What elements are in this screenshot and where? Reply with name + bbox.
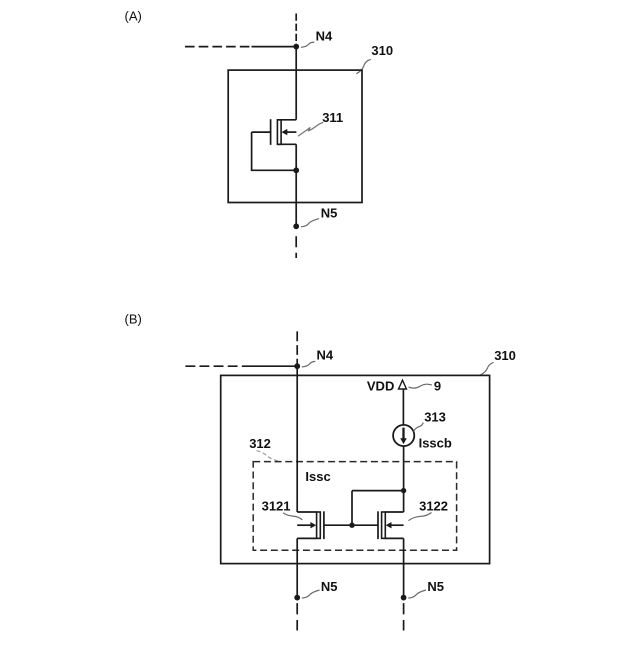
wire: solid horizontal into node N4 (fig B) bbox=[245, 365, 298, 367]
wire: vertical from N4 to transistor drain (fig A) bbox=[295, 47, 297, 120]
transistor 311 gate lead bbox=[252, 131, 271, 133]
transistor 3122 body arrow bbox=[390, 524, 403, 526]
wire: 3122 source down to N5 (fig B right) bbox=[403, 538, 405, 597]
svg-text:310: 310 bbox=[371, 43, 393, 58]
node N4 (fig A) junction dot bbox=[293, 44, 299, 50]
leader to 3122 bbox=[409, 513, 432, 521]
svg-text:Isscb: Isscb bbox=[419, 436, 452, 451]
svg-text:310: 310 bbox=[494, 348, 516, 363]
current source 313 circle bbox=[393, 425, 414, 446]
wire: 3121 source down to N5 (fig B left) bbox=[296, 538, 298, 597]
svg-text:311: 311 bbox=[322, 110, 343, 125]
transistor 311 gate bar bbox=[270, 119, 272, 145]
leader to 310 (fig A) bbox=[356, 59, 371, 73]
svg-text:N5: N5 bbox=[321, 205, 338, 220]
transistor 3122 bbox=[352, 511, 404, 539]
svg-text:VDD: VDD bbox=[367, 378, 394, 393]
node N4 (fig B) junction dot bbox=[294, 363, 300, 369]
transistor 3122 gate bar bbox=[377, 511, 379, 539]
leader to 312 (dashed) bbox=[257, 451, 280, 462]
svg-text:9: 9 bbox=[434, 378, 441, 393]
svg-text:3121: 3121 bbox=[262, 499, 291, 514]
wire: VDD triangle to current source bbox=[402, 389, 404, 425]
box 310 (fig B) bbox=[221, 375, 490, 563]
svg-text:N5: N5 bbox=[321, 579, 338, 594]
transistor 3121 body arrow bbox=[297, 524, 311, 526]
svg-text:312: 312 bbox=[249, 436, 271, 451]
transistor 3121 gate lead bbox=[324, 524, 352, 526]
transistor 3121 drain lead bbox=[297, 511, 316, 513]
current source 313 bbox=[393, 425, 414, 446]
leader to 311 bbox=[299, 122, 323, 135]
power symbol VDD triangle bbox=[399, 380, 407, 389]
wire: dashed below N5 right (fig B) bbox=[403, 603, 405, 630]
node N5 left (fig B) junction dot bbox=[294, 595, 300, 601]
leader to 310 (fig B) bbox=[480, 362, 494, 375]
transistor 3122 source lead bbox=[385, 537, 403, 539]
transistor 3121 gate bar bbox=[323, 511, 325, 539]
wire: dashed horizontal into node N4 (fig A) bbox=[185, 46, 250, 48]
box 312 (dashed) bbox=[253, 462, 456, 551]
leader to N5 (fig A) bbox=[301, 219, 319, 227]
svg-text:(A): (A) bbox=[125, 9, 142, 24]
transistor 311 body arrow bbox=[287, 131, 297, 133]
leader to 9 bbox=[409, 384, 432, 388]
node: common gate junction dot bbox=[349, 523, 354, 528]
wire: solid horizontal into node N4 (fig A) bbox=[252, 46, 297, 48]
box 310 (fig A) bbox=[228, 70, 362, 202]
transistor 3121 source lead bbox=[297, 537, 316, 539]
leader to N5 left (fig B) bbox=[302, 590, 320, 598]
node N5 (fig A) junction dot bbox=[293, 223, 299, 229]
transistor 3121 channel bbox=[317, 512, 321, 538]
wire: current source to transistor 3122 drain bbox=[403, 446, 405, 512]
svg-text:Issc: Issc bbox=[305, 469, 330, 484]
transistor 3122 drain lead bbox=[385, 511, 403, 513]
svg-text:N4: N4 bbox=[316, 28, 333, 43]
wire: dashed vertical above node N4 (fig A) bbox=[295, 14, 297, 47]
leader to N5 right (fig B) bbox=[408, 590, 426, 598]
svg-text:N5: N5 bbox=[427, 579, 444, 594]
leader to 3121 bbox=[283, 513, 302, 520]
wire: gate junction up bbox=[351, 491, 353, 526]
transistor 311 bbox=[252, 119, 297, 145]
leader to N4 (fig B) bbox=[302, 361, 315, 367]
svg-text:N4: N4 bbox=[317, 347, 334, 362]
wire: vertical from source to N5 (fig A) bbox=[295, 144, 297, 226]
transistor 311 channel bbox=[277, 120, 281, 145]
wire: dashed horizontal into node N4 (fig B) bbox=[185, 365, 244, 367]
wire: dashed vertical above node N4 (fig B) bbox=[296, 331, 298, 366]
svg-text:(B): (B) bbox=[125, 312, 142, 327]
leader to 313 bbox=[413, 423, 423, 432]
transistor 3122 channel bbox=[382, 512, 386, 538]
wire: gate junction over to 3122 drain bbox=[352, 490, 404, 492]
transistor 311 drain lead bbox=[277, 119, 296, 121]
current source 313 arrow bbox=[402, 428, 404, 440]
transistor 3122 gate lead bbox=[352, 524, 378, 526]
node N5 right (fig B) junction dot bbox=[401, 595, 407, 601]
node: source/gate junction dot (fig A) bbox=[293, 167, 299, 173]
wire: dashed vertical below N5 (fig A) bbox=[295, 236, 297, 258]
wire: gate feedback loop (fig A) bbox=[252, 132, 297, 170]
wire: N4 down to transistor 3121 drain (fig B) bbox=[296, 366, 298, 512]
leader to N4 (fig A) bbox=[301, 42, 314, 47]
svg-text:3122: 3122 bbox=[419, 499, 448, 514]
node: 3122 drain/gate junction dot bbox=[401, 488, 406, 493]
wire: dashed below N5 left (fig B) bbox=[296, 603, 298, 630]
transistor 3121 bbox=[297, 511, 352, 539]
svg-text:313: 313 bbox=[424, 409, 446, 424]
transistor 311 source lead bbox=[277, 143, 296, 145]
